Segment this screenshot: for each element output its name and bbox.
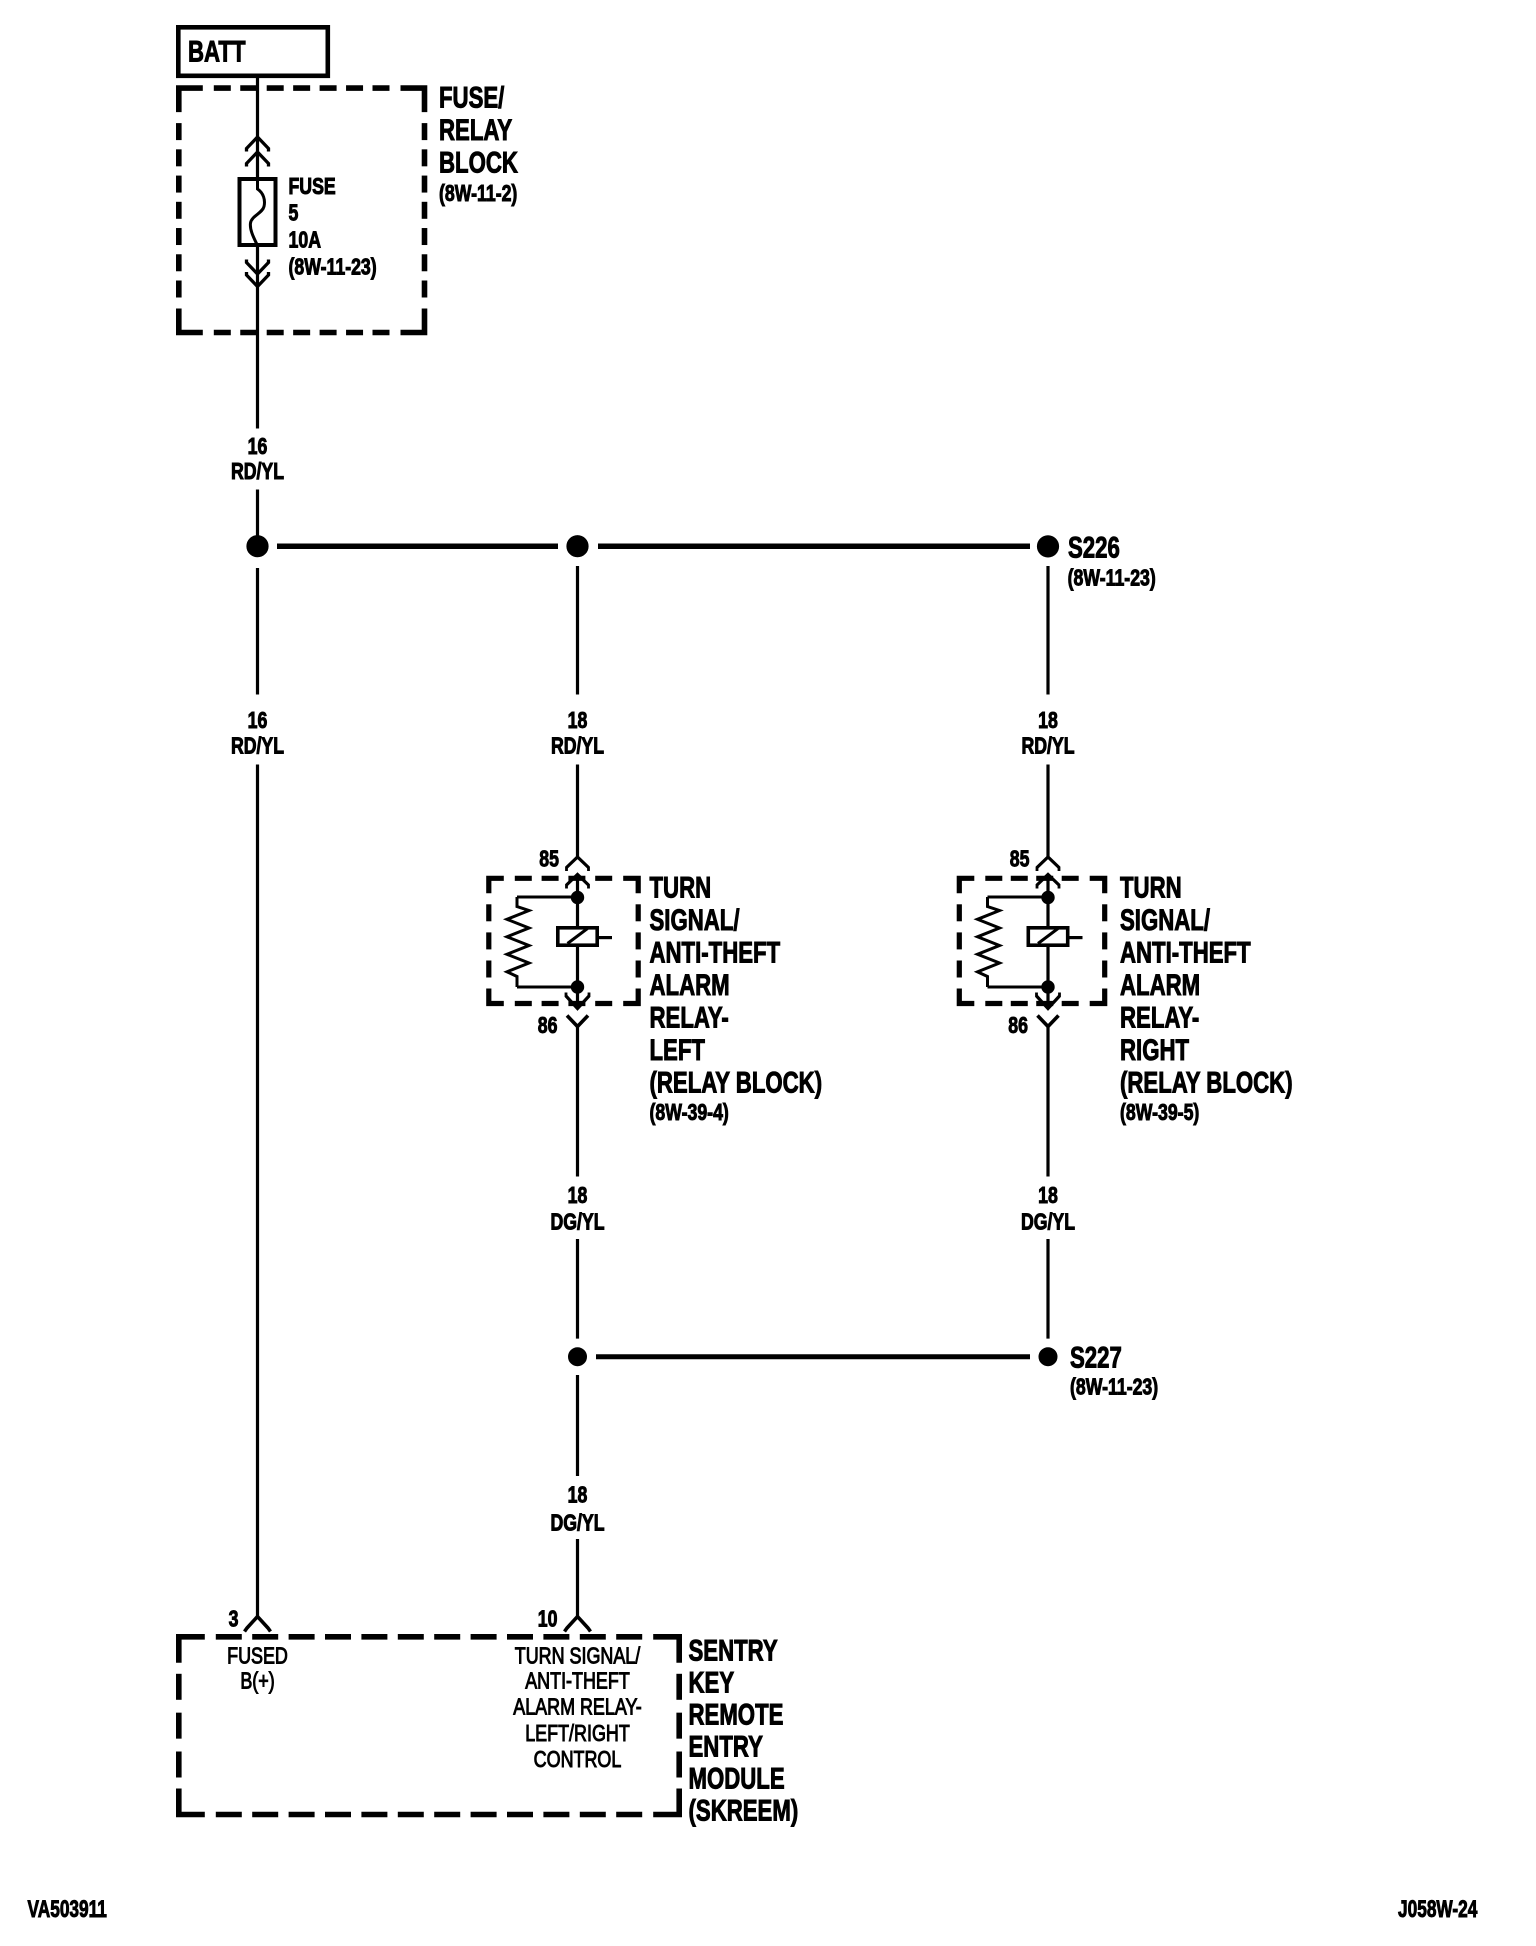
svg-text:CONTROL: CONTROL <box>534 1747 622 1773</box>
pin 86 connector chevron (RIGHT) <box>1038 1016 1059 1027</box>
splice S226 bus wire (right span) <box>598 543 1030 549</box>
case-edge connector chevron (LEFT) <box>567 875 589 886</box>
wire: coil to node (LEFT) <box>576 947 579 981</box>
svg-text:18: 18 <box>568 708 588 734</box>
svg-text:LEFT/RIGHT: LEFT/RIGHT <box>525 1721 630 1747</box>
junction dot at middle branch / S227 <box>569 1348 587 1366</box>
junction dot at left wire / S226 <box>247 536 268 557</box>
link: resistor bottom to node (RIGHT) <box>988 986 1049 989</box>
svg-text:S227: S227 <box>1070 1340 1122 1374</box>
svg-text:LEFT: LEFT <box>650 1033 705 1067</box>
svg-text:(8W-39-5): (8W-39-5) <box>1120 1100 1199 1126</box>
wire: left relay 86 down <box>576 1027 579 1177</box>
svg-text:TURN SIGNAL/: TURN SIGNAL/ <box>515 1643 641 1669</box>
svg-text:FUSE/: FUSE/ <box>439 80 505 114</box>
pin 85 connector chevron (RIGHT) <box>1037 857 1059 868</box>
SKREEM module dashed outline <box>179 1637 205 1663</box>
coil stub to case (LEFT) <box>599 936 612 939</box>
svg-text:5: 5 <box>289 200 299 226</box>
svg-text:TURN: TURN <box>1120 870 1182 904</box>
wire: 18 RD/YL into right relay pin 85 <box>1046 765 1049 857</box>
svg-text:RELAY-: RELAY- <box>1120 1000 1199 1034</box>
svg-text:SIGNAL/: SIGNAL/ <box>650 903 741 937</box>
pin 10 connector at SKREEM <box>565 1617 591 1632</box>
fuse F5 element curve <box>250 177 264 246</box>
svg-text:18: 18 <box>568 1482 588 1508</box>
wire: 16 RD/YL to SKREEM pin 3 <box>256 765 259 1617</box>
svg-text:ALARM RELAY-: ALARM RELAY- <box>513 1694 642 1720</box>
svg-text:10A: 10A <box>289 227 322 253</box>
fuse F5 body <box>240 179 276 245</box>
svg-text:18: 18 <box>568 1183 588 1209</box>
wire: S226 to left relay <box>576 566 579 695</box>
svg-text:86: 86 <box>538 1013 558 1039</box>
wire: coil to node (RIGHT) <box>1046 947 1049 981</box>
svg-text:ANTI-THEFT: ANTI-THEFT <box>650 935 781 969</box>
svg-text:18: 18 <box>1038 708 1058 734</box>
svg-text:(8W-11-23): (8W-11-23) <box>1068 565 1156 591</box>
wire: chevron to coil node (RIGHT) <box>1046 877 1049 898</box>
link: resistor bottom to node (LEFT) <box>517 986 578 989</box>
wire: label to splice S226 <box>256 490 259 547</box>
node dot pin86 side (RIGHT) <box>1042 981 1054 993</box>
svg-text:10: 10 <box>538 1606 558 1632</box>
wire: node to coil (RIGHT) <box>1046 904 1049 926</box>
resistor (relay RIGHT suppression) <box>978 897 1000 987</box>
svg-text:(RELAY BLOCK): (RELAY BLOCK) <box>1120 1065 1293 1099</box>
svg-text:SENTRY: SENTRY <box>689 1633 779 1667</box>
relay coil diagonal (RIGHT) <box>1038 929 1058 944</box>
resistor (relay LEFT suppression) <box>507 897 529 987</box>
relay coil box (LEFT) <box>558 928 597 945</box>
wire: label to splice S227 <box>576 1239 579 1339</box>
fuse/relay block (dashed outline) <box>179 88 203 112</box>
wire: node to case edge (LEFT) <box>576 993 579 1007</box>
svg-text:KEY: KEY <box>689 1665 735 1699</box>
connector BATT (battery feed) box <box>178 27 327 76</box>
node dot pin85 side (LEFT) <box>571 891 583 903</box>
pin 3 connector at SKREEM <box>245 1617 271 1632</box>
svg-text:BLOCK: BLOCK <box>439 145 518 179</box>
svg-text:MODULE: MODULE <box>689 1761 785 1795</box>
svg-text:RELAY-: RELAY- <box>650 1000 729 1034</box>
svg-text:TURN: TURN <box>650 870 712 904</box>
svg-text:REMOTE: REMOTE <box>689 1697 784 1731</box>
svg-text:DG/YL: DG/YL <box>1021 1209 1075 1235</box>
link: node to resistor top (LEFT) <box>517 896 578 899</box>
connector chevrons (out of fuse block) <box>247 260 269 275</box>
svg-text:FUSE: FUSE <box>289 174 336 200</box>
svg-text:3: 3 <box>229 1606 239 1632</box>
svg-text:RELAY: RELAY <box>439 113 513 147</box>
junction dot S226 (right end) <box>1037 536 1058 557</box>
wire: S226 to right relay <box>1046 566 1049 695</box>
wire: chevron to coil node (LEFT) <box>576 877 579 898</box>
wire: 18 DG/YL to SKREEM pin 10 <box>576 1539 579 1617</box>
node dot pin85 side (RIGHT) <box>1042 891 1054 903</box>
svg-text:(8W-39-4): (8W-39-4) <box>650 1100 729 1126</box>
svg-text:86: 86 <box>1008 1013 1028 1039</box>
wire: right relay 86 down <box>1046 1027 1049 1177</box>
svg-text:(SKREEM): (SKREEM) <box>689 1793 799 1827</box>
svg-text:ANTI-THEFT: ANTI-THEFT <box>525 1668 630 1694</box>
svg-text:DG/YL: DG/YL <box>550 1510 604 1536</box>
svg-text:J058W-24: J058W-24 <box>1398 1896 1478 1922</box>
svg-text:FUSED: FUSED <box>227 1643 288 1669</box>
svg-text:SIGNAL/: SIGNAL/ <box>1120 903 1211 937</box>
case-edge connector chevron down (RIGHT) <box>1037 996 1060 1009</box>
svg-text:S226: S226 <box>1068 530 1120 564</box>
relay coil diagonal (LEFT) <box>568 929 588 944</box>
svg-text:RD/YL: RD/YL <box>551 733 604 759</box>
wire: S226 down-left toward SKREEM <box>256 568 259 695</box>
relay RIGHT dashed case <box>959 878 974 893</box>
svg-text:18: 18 <box>1038 1183 1058 1209</box>
junction dot S227 (right end) <box>1039 1348 1057 1366</box>
svg-text:BATT: BATT <box>188 34 246 68</box>
svg-text:DG/YL: DG/YL <box>550 1209 604 1235</box>
svg-text:ALARM: ALARM <box>1120 968 1200 1002</box>
svg-text:RIGHT: RIGHT <box>1120 1033 1189 1067</box>
svg-text:16: 16 <box>248 434 268 460</box>
coil stub to case (RIGHT) <box>1070 936 1083 939</box>
wire: fuse to label 16 RD/YL <box>256 247 259 429</box>
case-edge connector chevron down (LEFT) <box>566 996 589 1009</box>
wire: node to coil (LEFT) <box>576 904 579 926</box>
svg-text:(8W-11-23): (8W-11-23) <box>289 254 377 280</box>
node dot pin86 side (LEFT) <box>571 981 583 993</box>
wire: S227 down toward SKREEM <box>576 1375 579 1476</box>
wire: 18 RD/YL into left relay pin 85 <box>576 765 579 857</box>
svg-text:85: 85 <box>1010 846 1030 872</box>
splice S227 bus wire <box>596 1354 1030 1359</box>
svg-text:ALARM: ALARM <box>650 968 730 1002</box>
svg-text:(RELAY BLOCK): (RELAY BLOCK) <box>650 1065 823 1099</box>
splice S226 bus wire (left span) <box>277 543 558 549</box>
link: node to resistor top (RIGHT) <box>988 896 1049 899</box>
svg-text:B(+): B(+) <box>240 1668 274 1694</box>
svg-text:RD/YL: RD/YL <box>231 459 284 485</box>
svg-text:RD/YL: RD/YL <box>231 733 284 759</box>
svg-text:85: 85 <box>539 846 559 872</box>
connector chevrons (into fuse block) <box>247 137 269 152</box>
svg-text:ENTRY: ENTRY <box>689 1729 764 1763</box>
relay coil box (RIGHT) <box>1028 928 1067 945</box>
relay LEFT dashed case <box>489 878 504 893</box>
pin 85 connector chevron (LEFT) <box>567 857 589 868</box>
case-edge connector chevron (RIGHT) <box>1037 875 1059 886</box>
wire: node to case edge (RIGHT) <box>1046 993 1049 1007</box>
wire: BATT to fuse F5 <box>256 75 259 178</box>
svg-text:VA503911: VA503911 <box>28 1896 108 1922</box>
junction dot at middle branch / S226 <box>567 536 588 557</box>
svg-text:ANTI-THEFT: ANTI-THEFT <box>1120 935 1251 969</box>
svg-text:RD/YL: RD/YL <box>1021 733 1074 759</box>
svg-text:(8W-11-23): (8W-11-23) <box>1070 1374 1158 1400</box>
svg-text:(8W-11-2): (8W-11-2) <box>439 181 517 207</box>
pin 86 connector chevron (LEFT) <box>567 1016 588 1027</box>
svg-text:16: 16 <box>248 708 268 734</box>
wire: right label to splice S227 <box>1046 1239 1049 1339</box>
